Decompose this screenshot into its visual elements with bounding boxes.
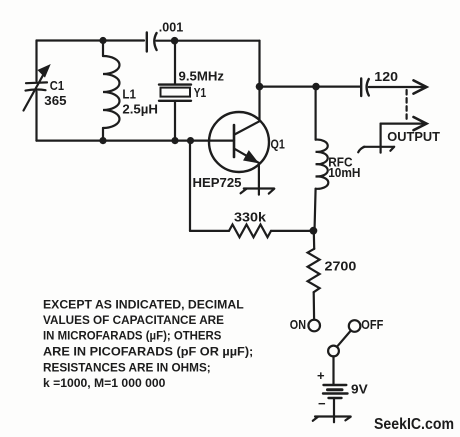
node: RFC/330k/2700 junction: [310, 227, 318, 235]
svg-text:.001: .001: [159, 20, 183, 35]
svg-text:ARE IN PICOFARADS (pF OR µµF);: ARE IN PICOFARADS (pF OR µµF);: [43, 345, 253, 359]
wire: base bias vertical: [189, 141, 191, 231]
battery 9V: [323, 385, 348, 398]
ground (emitter): [241, 189, 275, 195]
wire: right vertical (top rail to collector): [258, 41, 260, 121]
wire: top rail left segment: [37, 39, 145, 41]
switch pole terminal: [328, 346, 339, 357]
capacitor .001: [147, 33, 157, 52]
capacitor 120: [361, 79, 369, 97]
wire: junction to 2700: [313, 231, 316, 249]
wire: 330k left lead: [190, 230, 229, 232]
svg-text:SeekIC.com: SeekIC.com: [374, 416, 454, 433]
svg-text:k =1000, M=1 000 000: k =1000, M=1 000 000: [43, 376, 166, 390]
svg-text:2700: 2700: [325, 259, 357, 274]
wire: arrow2 tail vertical: [380, 124, 382, 147]
svg-text:OFF: OFF: [361, 317, 383, 332]
wire: output lead with arrow 1: [369, 80, 427, 93]
svg-text:OUTPUT: OUTPUT: [387, 129, 440, 144]
transistor Q1 base bar: [233, 125, 236, 157]
svg-text:2.5µH: 2.5µH: [122, 102, 158, 117]
svg-text:VALUES OF CAPACITANCE ARE: VALUES OF CAPACITANCE ARE: [43, 313, 224, 327]
wire: output lead with arrow 2: [381, 117, 427, 130]
transistor Q1 emitter line with arrow: [235, 149, 259, 163]
inductor L1 2.5uH: [103, 41, 120, 141]
crystal Y1: [159, 85, 191, 101]
capacitor C1 365 (variable): [24, 66, 50, 111]
svg-text:Q1: Q1: [271, 137, 285, 152]
wire: emitter vertical: [258, 163, 260, 189]
transistor Q1 circle: [209, 112, 269, 172]
svg-text:ON: ON: [290, 317, 306, 332]
wire: pole to battery: [332, 356, 334, 383]
switch OFF terminal: [349, 320, 361, 332]
wire: crystal vertical lower: [174, 101, 176, 141]
inductor RFC 10mH: [315, 87, 329, 231]
svg-text:9V: 9V: [351, 382, 368, 397]
node: RFC top: [312, 83, 320, 91]
svg-text:10mH: 10mH: [328, 165, 360, 180]
node: base bias junction: [187, 137, 194, 144]
node: crystal top junction: [171, 37, 179, 45]
resistor 2700: [308, 249, 320, 292]
svg-text:−: −: [318, 396, 326, 411]
notes text: [43, 297, 253, 390]
svg-text:IN MICROFARADS (µF); OTHERS: IN MICROFARADS (µF); OTHERS: [43, 329, 221, 343]
node: crystal bottom junction: [171, 137, 178, 144]
wire: left vertical upper (to C1): [35, 41, 37, 82]
switch ON terminal: [308, 320, 320, 332]
wire: crystal vertical upper: [174, 41, 176, 84]
wire: 2700 to ON terminal: [313, 292, 316, 319]
wire: dashed link: [406, 90, 408, 121]
svg-text:+: +: [317, 368, 325, 383]
ground (output): [358, 147, 394, 153]
node: L1 bottom: [99, 137, 106, 144]
switch arm: [337, 331, 351, 347]
svg-text:C1: C1: [50, 78, 64, 93]
svg-text:RESISTANCES ARE IN OHMS;: RESISTANCES ARE IN OHMS;: [43, 361, 211, 375]
svg-text:365: 365: [44, 93, 66, 108]
resistor 330k: [229, 225, 271, 238]
svg-text:330k: 330k: [234, 210, 267, 225]
wire: mid horizontal (node to 120 cap): [260, 85, 361, 87]
svg-text:Y1: Y1: [194, 85, 206, 100]
wire: 330k right lead: [271, 230, 313, 232]
wire: top rail right segment: [157, 40, 260, 42]
node: L1 top: [99, 37, 106, 44]
node: collector/output junction: [256, 83, 264, 91]
ground (battery): [313, 417, 351, 423]
svg-text:120: 120: [374, 69, 398, 84]
wire: bottom rail: [37, 140, 235, 142]
svg-text:9.5MHz: 9.5MHz: [179, 69, 225, 84]
wire: left vertical lower (from C1): [35, 92, 37, 141]
transistor Q1 collector line: [235, 121, 260, 134]
svg-text:L1: L1: [122, 87, 136, 102]
wire: battery to ground: [333, 398, 335, 416]
svg-text:HEP725: HEP725: [193, 175, 242, 190]
svg-text:EXCEPT AS INDICATED, DECIMAL: EXCEPT AS INDICATED, DECIMAL: [43, 297, 244, 311]
